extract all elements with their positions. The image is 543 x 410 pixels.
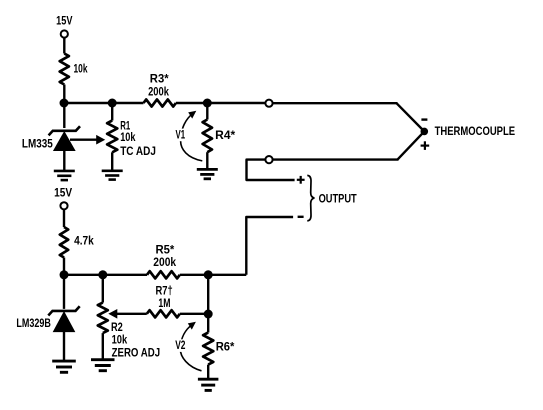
ground LM329B <box>52 361 76 372</box>
brace output <box>307 175 314 221</box>
label R4* <box>215 128 235 142</box>
arrow LM335 ADJ to R1 wiper <box>70 135 105 145</box>
terminal top thermocouple lead <box>265 100 272 107</box>
label R2 10k <box>112 333 128 347</box>
svg-text:V1: V1 <box>176 128 186 142</box>
label R7 1M <box>158 296 170 310</box>
svg-text:TC ADJ: TC ADJ <box>120 144 156 158</box>
node R2 top junction <box>98 270 107 279</box>
wire R4 to ground <box>206 152 208 168</box>
resistor R5 body <box>147 271 180 278</box>
svg-text:10k: 10k <box>74 61 88 75</box>
potentiometer R2 body <box>98 303 108 334</box>
label R6* <box>216 340 235 354</box>
resistor 10k body <box>60 54 69 85</box>
arrow R7 to R2 wiper <box>108 309 147 319</box>
arrow V1 curved <box>181 111 203 161</box>
label 15V bottom supply <box>54 186 72 200</box>
label plus thermocouple <box>421 141 430 150</box>
label R3* <box>150 71 169 85</box>
wire R4 top <box>206 103 208 120</box>
thermocouple junction dot <box>421 128 429 136</box>
svg-text:LM335: LM335 <box>22 137 53 151</box>
wire LM335 to ground <box>63 150 65 171</box>
wire bottom lead right <box>273 158 399 160</box>
label R3 200k <box>148 85 169 99</box>
label R2 <box>111 320 123 334</box>
svg-text:R4*: R4* <box>215 128 235 142</box>
node C junction <box>204 270 213 279</box>
svg-text:THERMOCOUPLE: THERMOCOUPLE <box>435 124 515 138</box>
wire 15V to R 10k <box>63 38 65 54</box>
wire R7 to node D <box>180 313 208 315</box>
node A junction <box>60 99 69 108</box>
potentiometer R1 body <box>107 121 117 153</box>
label R7 dagger <box>156 284 173 298</box>
wire R3 to node V1 <box>176 102 207 104</box>
label V2 on white <box>173 338 187 352</box>
label R1 10k <box>120 130 136 144</box>
label 15V top supply <box>56 14 72 28</box>
terminal 15V top <box>61 30 68 37</box>
node R3 R4 junction <box>203 99 212 108</box>
label OUTPUT <box>319 191 358 205</box>
wire top rail node A to R3 <box>64 102 144 104</box>
wire R5 to node C <box>180 274 247 276</box>
wire 10k to node A <box>63 85 65 104</box>
terminal bottom thermocouple lead <box>265 156 272 163</box>
wire R2 to ground <box>102 333 104 358</box>
label minus output <box>298 216 304 218</box>
ground R1 <box>102 171 123 180</box>
svg-text:OUTPUT: OUTPUT <box>319 191 358 205</box>
label V1 on white <box>174 128 188 142</box>
zener diode LM329B <box>48 306 79 331</box>
wire node to top terminal <box>207 102 265 104</box>
svg-text:1M: 1M <box>158 296 170 310</box>
svg-text:ZERO ADJ: ZERO ADJ <box>112 345 161 359</box>
wire bottom lead left + drop to plus output <box>247 160 295 180</box>
label LM335 <box>22 137 53 151</box>
zener diode LM335 <box>49 126 80 150</box>
svg-text:4.7k: 4.7k <box>74 234 94 248</box>
ground LM335 <box>54 171 75 180</box>
wire node A down to LM335 <box>63 103 65 128</box>
terminal 15V bottom <box>60 202 67 209</box>
label R2 ZERO ADJ <box>112 345 161 359</box>
wire R6 to ground <box>207 365 209 378</box>
ground R2 <box>91 360 115 371</box>
svg-text:15V: 15V <box>56 14 72 28</box>
node R1 top junction <box>108 99 117 108</box>
resistor R6 body <box>203 333 213 365</box>
label R1 <box>120 119 130 133</box>
svg-text:LM329B: LM329B <box>16 316 51 330</box>
label plus output <box>297 176 305 184</box>
svg-text:15V: 15V <box>54 186 72 200</box>
wire 15V to R 4.7k <box>63 210 65 227</box>
label minus thermocouple <box>421 118 427 120</box>
wire diagonal bottom thermocouple <box>398 131 425 159</box>
resistor R7 body <box>147 310 180 317</box>
ground R6 <box>198 379 219 390</box>
label R1 TC ADJ <box>120 144 156 158</box>
wire terminal to diag top <box>273 102 398 104</box>
svg-text:200k: 200k <box>153 255 176 269</box>
wire diagonal top thermocouple <box>397 103 425 131</box>
wire 4.7k to node B <box>63 258 65 275</box>
label THERMOCOUPLE <box>435 124 515 138</box>
label R5* <box>156 243 175 257</box>
wire R2 top <box>102 275 104 303</box>
wire node C to node D to R6 <box>207 275 209 333</box>
svg-text:R6*: R6* <box>216 340 235 354</box>
svg-text:R3*: R3* <box>150 71 169 85</box>
label 4.7k <box>74 234 94 248</box>
label R5 200k <box>153 255 176 269</box>
label 10k <box>74 61 88 75</box>
svg-text:10k: 10k <box>120 130 136 144</box>
wire bottom rail node B to R5 <box>64 274 147 276</box>
wire R1 top <box>111 103 113 121</box>
node D junction <box>204 310 213 319</box>
arrow V2 curved <box>180 322 201 371</box>
ground R4 <box>197 169 218 178</box>
node B junction <box>60 270 69 279</box>
resistor R4 body <box>203 120 212 153</box>
wire minus output to lower rail <box>246 217 293 275</box>
svg-text:200k: 200k <box>148 85 169 99</box>
label LM329B <box>16 316 51 330</box>
resistor R3 body <box>144 99 176 106</box>
wire R1 to ground <box>111 152 113 170</box>
resistor 4.7k body <box>60 227 68 258</box>
wire node B down to LM329B <box>63 275 65 309</box>
wire LM329B to ground <box>63 331 65 361</box>
svg-text:V2: V2 <box>175 338 186 352</box>
